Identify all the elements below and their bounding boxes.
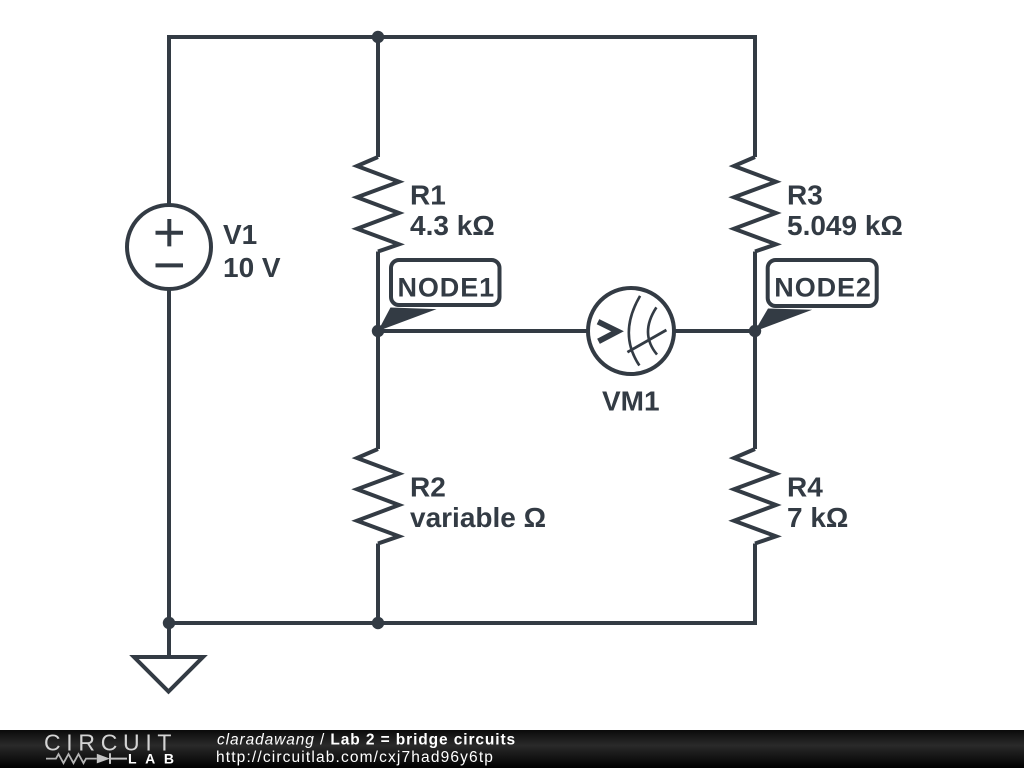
svg-text:claradawang / Lab 2 = bridge c: claradawang / Lab 2 = bridge circuits [217,732,516,749]
svg-text:R2: R2 [410,471,446,502]
svg-text:NODE2: NODE2 [774,273,872,303]
svg-text:LAB: LAB [128,751,183,767]
svg-text:10 V: 10 V [223,252,281,283]
svg-text:4.3 kΩ: 4.3 kΩ [410,210,495,241]
svg-text:R4: R4 [787,471,823,502]
svg-text:http://circuitlab.com/cxj7had9: http://circuitlab.com/cxj7had96y6tp [216,749,494,766]
svg-text:5.049 kΩ: 5.049 kΩ [787,210,903,241]
svg-text:V1: V1 [223,219,257,250]
svg-text:NODE1: NODE1 [398,272,496,302]
svg-text:7 kΩ: 7 kΩ [787,502,848,533]
svg-text:variable Ω: variable Ω [410,502,546,533]
svg-text:R3: R3 [787,179,823,210]
svg-text:R1: R1 [410,179,446,210]
svg-text:VM1: VM1 [602,386,660,417]
